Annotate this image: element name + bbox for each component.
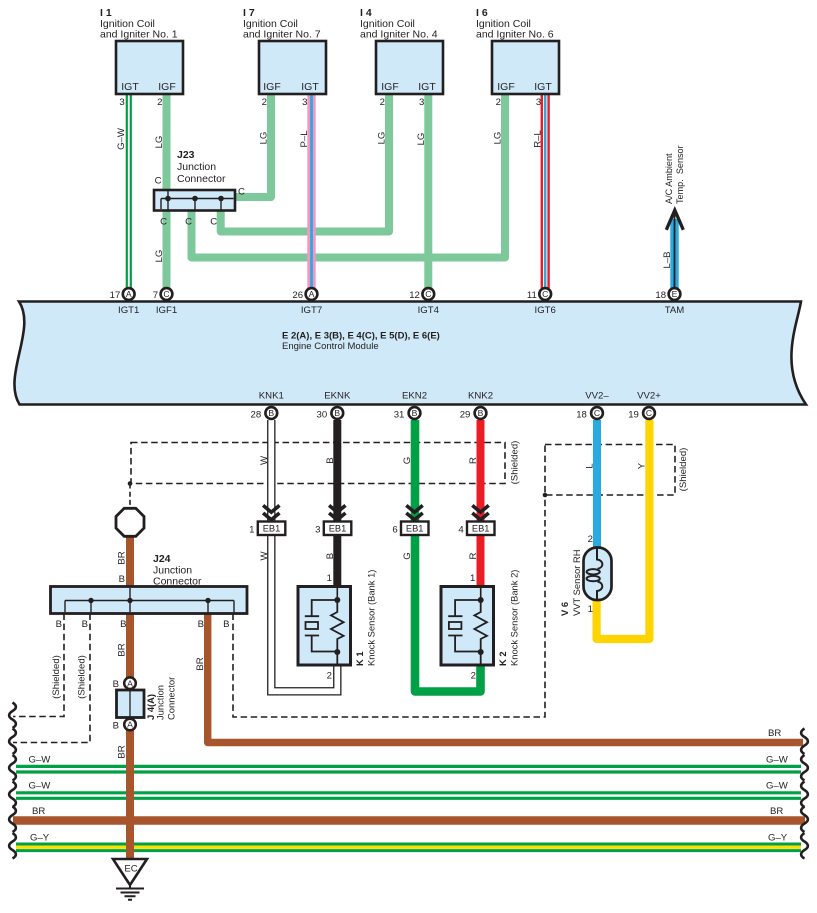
svg-text:IGT7: IGT7 xyxy=(301,305,322,316)
wire BR from octagon shield ground to J24 xyxy=(126,536,134,588)
wire BR from J24 right pin to right bus xyxy=(208,614,803,743)
svg-text:C: C xyxy=(185,217,192,228)
svg-text:B: B xyxy=(412,408,418,418)
svg-text:IGF: IGF xyxy=(381,81,399,93)
svg-text:IGT: IGT xyxy=(301,81,319,93)
svg-text:V 6: V 6 xyxy=(559,602,570,616)
connector EB1 pin 6 xyxy=(392,505,428,535)
VVT sensor V6 xyxy=(559,534,612,616)
svg-text:J23: J23 xyxy=(177,149,195,161)
svg-text:VVT Sensor RH: VVT Sensor RH xyxy=(571,549,582,616)
wire bus G-Y xyxy=(16,844,801,851)
svg-text:EC: EC xyxy=(124,864,137,875)
ignition coil I6 xyxy=(476,7,559,108)
svg-text:and Igniter No. 4: and Igniter No. 4 xyxy=(360,29,438,41)
svg-text:Connector: Connector xyxy=(153,576,202,588)
wire LG from J23 bottom pin C to I4 IGF pin 2 xyxy=(221,94,389,232)
svg-text:C: C xyxy=(594,408,600,418)
svg-text:4: 4 xyxy=(458,525,464,536)
junction connector J24 xyxy=(51,553,248,630)
svg-text:IGF: IGF xyxy=(158,81,176,93)
svg-text:11: 11 xyxy=(527,290,537,301)
svg-text:BR: BR xyxy=(768,728,781,739)
svg-text:K 1: K 1 xyxy=(354,651,365,666)
shield dashed box around knock sensor wires xyxy=(131,443,505,484)
shield drain dashed wire from J24 pin to VVT shield xyxy=(233,495,545,717)
ignition coil I1 xyxy=(100,7,183,108)
svg-text:(Shielded): (Shielded) xyxy=(510,441,521,485)
svg-text:A: A xyxy=(126,289,132,299)
svg-text:LG: LG xyxy=(416,133,427,146)
svg-text:BR: BR xyxy=(117,643,128,656)
svg-text:Connector: Connector xyxy=(166,677,177,720)
svg-text:7: 7 xyxy=(153,290,158,301)
svg-text:Temp. Sensor: Temp. Sensor xyxy=(675,145,685,204)
torn wire squiggles right edge xyxy=(801,729,808,859)
knock sensor K1 xyxy=(298,570,377,682)
pin 29(B) KNK2 xyxy=(460,390,493,420)
knock sensor K2 xyxy=(441,570,520,682)
arrowhead to A/C ambient temp sensor xyxy=(666,210,683,230)
connector EB1 pin 1 xyxy=(249,505,285,535)
svg-text:IGT4: IGT4 xyxy=(418,305,440,316)
svg-text:C: C xyxy=(425,289,431,299)
svg-text:IGT: IGT xyxy=(534,81,552,93)
svg-text:C: C xyxy=(155,176,162,187)
svg-text:and Igniter No. 6: and Igniter No. 6 xyxy=(476,29,554,41)
pin 28(B) KNK1 xyxy=(251,390,284,420)
svg-text:A: A xyxy=(309,289,315,299)
svg-text:B: B xyxy=(120,619,126,630)
svg-text:(Shielded): (Shielded) xyxy=(77,655,88,699)
svg-text:P–L: P–L xyxy=(299,130,310,148)
svg-text:30: 30 xyxy=(317,409,328,420)
svg-text:C: C xyxy=(163,289,169,299)
svg-text:B: B xyxy=(82,619,88,630)
svg-text:R: R xyxy=(468,457,479,464)
svg-text:TAM: TAM xyxy=(665,305,685,316)
svg-text:Y: Y xyxy=(637,462,648,469)
svg-text:VV2–: VV2– xyxy=(585,390,609,401)
svg-text:1: 1 xyxy=(588,604,593,615)
pin 26(A) IGT7 xyxy=(292,288,322,316)
svg-text:BR: BR xyxy=(195,657,206,670)
svg-text:B: B xyxy=(119,574,125,585)
wire G-W from I1 IGT pin 3 to ECM pin 17 IGT1 xyxy=(127,94,131,288)
svg-text:2: 2 xyxy=(496,97,501,108)
svg-text:LG: LG xyxy=(377,132,388,145)
svg-text:6: 6 xyxy=(392,525,397,536)
junction dot on VVT shield box xyxy=(543,493,548,498)
wire LG from I4 IGT pin 3 to ECM pin 12 IGT4 xyxy=(424,94,432,288)
svg-text:EB1: EB1 xyxy=(406,524,424,534)
svg-text:VV2+: VV2+ xyxy=(637,390,661,401)
svg-text:LG: LG xyxy=(259,132,270,145)
svg-text:BR: BR xyxy=(770,806,783,817)
svg-text:IGT6: IGT6 xyxy=(535,305,556,316)
svg-text:17: 17 xyxy=(110,290,121,301)
connector EB1 pin 3 xyxy=(315,505,351,535)
svg-text:R–L: R–L xyxy=(533,130,544,148)
svg-text:A/C Ambient: A/C Ambient xyxy=(664,153,674,204)
svg-text:Knock Sensor (Bank 1): Knock Sensor (Bank 1) xyxy=(366,570,377,666)
svg-text:EB1: EB1 xyxy=(472,524,490,534)
wire bus G-W lower xyxy=(16,793,801,799)
svg-text:and Igniter No. 7: and Igniter No. 7 xyxy=(243,29,321,41)
svg-text:18: 18 xyxy=(655,290,666,301)
svg-text:3: 3 xyxy=(119,97,124,108)
ECM engine control module band xyxy=(14,302,806,405)
svg-text:W: W xyxy=(259,455,270,465)
svg-text:W: W xyxy=(259,551,270,561)
pin 11(C) IGT6 xyxy=(527,288,556,316)
svg-text:EKNK: EKNK xyxy=(324,390,351,401)
wire P-L from I7 IGT pin 3 to ECM pin 26 IGT7 xyxy=(307,94,315,288)
svg-text:and Igniter No. 1: and Igniter No. 1 xyxy=(100,29,178,41)
svg-text:1: 1 xyxy=(470,573,475,584)
svg-text:BR: BR xyxy=(117,551,128,564)
svg-text:K 2: K 2 xyxy=(497,651,508,666)
svg-text:Connector: Connector xyxy=(177,173,226,185)
svg-text:28: 28 xyxy=(251,409,262,420)
svg-text:B: B xyxy=(198,619,204,630)
pin 30(B) EKNK xyxy=(317,390,351,420)
svg-text:IGT: IGT xyxy=(121,81,139,93)
svg-text:EB1: EB1 xyxy=(263,524,281,534)
wire G from ECM pin 31 EKN2 to K2 pin 2 xyxy=(415,420,481,692)
svg-text:B: B xyxy=(113,679,119,690)
svg-text:KNK2: KNK2 xyxy=(468,390,493,401)
svg-text:G–W: G–W xyxy=(116,127,127,150)
svg-text:3: 3 xyxy=(419,97,424,108)
svg-text:1: 1 xyxy=(249,525,254,536)
wire bus BR long xyxy=(13,816,805,824)
svg-text:Knock Sensor (Bank 2): Knock Sensor (Bank 2) xyxy=(509,570,520,666)
svg-text:EB1: EB1 xyxy=(329,524,347,534)
svg-text:B: B xyxy=(334,408,340,418)
svg-text:G: G xyxy=(402,552,413,559)
svg-text:IGF: IGF xyxy=(497,81,515,93)
wire Y from ECM pin 19 VV2+ to VVT sensor pin 1 xyxy=(597,420,650,639)
wire bus G-W upper xyxy=(16,766,801,772)
shield drain dashed wire left 2 from J24 xyxy=(13,614,90,743)
wire BR from J24 through J4(A) to EC ground xyxy=(126,587,134,860)
wire LG from J23 bottom pin C to I6 IGF pin 2 xyxy=(192,94,506,258)
svg-text:26: 26 xyxy=(292,290,303,301)
connector EB1 pin 4 xyxy=(458,505,494,535)
svg-text:B: B xyxy=(325,457,336,463)
svg-text:LG: LG xyxy=(493,132,504,145)
wire B from ECM pin 30 EKNK to K1 pin 1 xyxy=(333,420,341,588)
svg-text:B: B xyxy=(113,720,119,731)
pin 31(B) EKN2 xyxy=(394,390,427,420)
svg-text:2: 2 xyxy=(262,97,267,108)
pin 17(A) IGT1 xyxy=(110,288,140,316)
svg-text:G–W: G–W xyxy=(766,755,789,766)
svg-text:G–W: G–W xyxy=(29,755,52,766)
svg-text:B: B xyxy=(478,408,484,418)
svg-text:B: B xyxy=(268,408,274,418)
svg-text:E 2(A), E 3(B), E 4(C), E 5(D): E 2(A), E 3(B), E 4(C), E 5(D), E 6(E) xyxy=(282,331,440,342)
svg-text:12: 12 xyxy=(409,290,420,301)
svg-text:B: B xyxy=(325,553,336,559)
svg-text:C: C xyxy=(646,408,652,418)
svg-text:31: 31 xyxy=(394,409,405,420)
svg-text:Junction: Junction xyxy=(177,161,216,173)
svg-text:L: L xyxy=(585,463,596,469)
svg-text:3: 3 xyxy=(302,97,307,108)
svg-text:2: 2 xyxy=(588,534,593,545)
svg-text:3: 3 xyxy=(536,97,541,108)
svg-text:G: G xyxy=(402,457,413,464)
svg-text:G–Y: G–Y xyxy=(768,833,788,844)
svg-text:(Shielded): (Shielded) xyxy=(51,655,62,699)
svg-text:A: A xyxy=(127,678,133,688)
svg-text:19: 19 xyxy=(628,409,639,420)
svg-text:LG: LG xyxy=(154,136,165,149)
svg-text:Engine Control Module: Engine Control Module xyxy=(282,341,379,352)
octagon shield ground symbol xyxy=(116,508,144,536)
svg-text:2: 2 xyxy=(327,671,332,682)
svg-text:IGT1: IGT1 xyxy=(118,305,139,316)
svg-text:J24: J24 xyxy=(153,553,171,565)
junction connector J23 xyxy=(154,149,245,228)
pin 19(C) VV2+ xyxy=(628,390,661,420)
shield drain dashed wire left 1 from J24 xyxy=(13,614,64,717)
svg-text:EKN2: EKN2 xyxy=(402,390,427,401)
ignition coil I7 xyxy=(243,7,326,108)
svg-text:2: 2 xyxy=(157,97,162,108)
shield dashed box around VVT sensor wires xyxy=(545,445,675,496)
junction dot on knock shield box xyxy=(128,481,133,486)
wire W from ECM pin 28 KNK1 to K1 pin 2 (white wire loop) xyxy=(271,419,337,691)
shield drain dashed wire from knock shield to octagon ground point xyxy=(129,484,131,508)
torn wire squiggles left edge xyxy=(9,703,16,859)
svg-text:3: 3 xyxy=(315,525,320,536)
ignition coil I4 xyxy=(360,7,443,108)
svg-text:G–W: G–W xyxy=(29,781,52,792)
svg-text:G–Y: G–Y xyxy=(30,833,50,844)
svg-text:IGT: IGT xyxy=(418,81,436,93)
wire LG from I1 IGF pin 2 through J23 to ECM pin 7 IGF1 xyxy=(163,94,171,288)
svg-text:18: 18 xyxy=(576,409,587,420)
wire R from ECM pin 29 KNK2 to K2 pin 1 xyxy=(477,420,485,588)
wire L-B from ECM pin 18 TAM up to A/C ambient temp sensor xyxy=(670,212,678,289)
svg-text:(Shielded): (Shielded) xyxy=(678,448,689,492)
svg-text:E: E xyxy=(672,289,678,299)
EC ground symbol xyxy=(113,859,147,900)
junction connector J4(A) xyxy=(113,677,177,732)
svg-text:C: C xyxy=(210,217,217,228)
svg-text:B: B xyxy=(223,619,229,630)
svg-text:BR: BR xyxy=(32,806,45,817)
wire LG from I7 IGF pin 2 to J23 right pin C xyxy=(234,94,271,197)
wire R-L from I6 IGT pin 3 to ECM pin 11 IGT6 xyxy=(541,94,550,288)
svg-text:Junction: Junction xyxy=(155,685,166,720)
svg-text:B: B xyxy=(56,619,62,630)
svg-text:C: C xyxy=(542,289,548,299)
svg-text:A: A xyxy=(127,720,133,730)
svg-text:2: 2 xyxy=(471,671,476,682)
svg-text:LG: LG xyxy=(154,250,165,263)
svg-text:KNK1: KNK1 xyxy=(259,390,284,401)
pin 18(C) VV2- xyxy=(576,390,609,420)
svg-text:L–B: L–B xyxy=(662,251,673,268)
pin 18(E) TAM xyxy=(655,288,684,316)
svg-text:R: R xyxy=(468,552,479,559)
svg-text:G–W: G–W xyxy=(766,781,789,792)
svg-text:C: C xyxy=(160,217,167,228)
svg-text:C: C xyxy=(238,187,245,198)
svg-text:1: 1 xyxy=(327,573,332,584)
wire L from ECM pin 18 VV2- to VVT sensor pin 2 xyxy=(593,420,601,547)
svg-text:BR: BR xyxy=(117,745,128,758)
svg-text:IGF1: IGF1 xyxy=(156,305,177,316)
pin 12(C) IGT4 xyxy=(409,288,439,316)
svg-text:IGF: IGF xyxy=(263,81,281,93)
svg-text:2: 2 xyxy=(380,97,385,108)
svg-text:29: 29 xyxy=(460,409,471,420)
pin 7(C) IGF1 xyxy=(153,288,177,316)
